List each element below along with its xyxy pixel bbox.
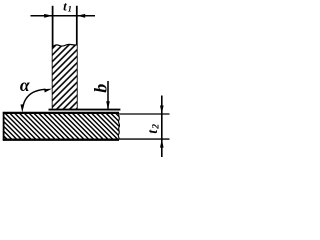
wire horizontal plate bottom edge: [3, 139, 119, 141]
node horizontal plate hatch fill: [4, 113, 120, 140]
wire vertical plate bottom edge / b extension line: [49, 109, 121, 111]
node alpha arc: [23, 89, 46, 108]
wire horizontal plate top edge: [3, 112, 119, 114]
svg-text:1: 1: [68, 3, 72, 13]
node vertical plate hatch fill: [53, 44, 77, 109]
node alpha arrowhead right: [44, 89, 52, 93]
svg-text:2: 2: [152, 124, 162, 130]
wire left extension line / vertical plate left edge: [52, 6, 54, 110]
wire t2 dimension line: [161, 96, 163, 158]
wire t2 top extension line: [120, 113, 170, 115]
wire horizontal plate left edge: [3, 112, 5, 141]
node t2 top arrowhead: [160, 106, 164, 114]
wire t2 bottom extension line: [120, 138, 170, 140]
svg-text:α: α: [20, 75, 30, 95]
svg-text:b: b: [90, 84, 110, 93]
svg-text:t: t: [63, 0, 67, 13]
wire vertical plate wavy break line (top): [53, 44, 77, 47]
wire t1 dimension line: [31, 15, 96, 17]
node b arrow stem: [107, 81, 109, 109]
node b arrowhead: [106, 101, 110, 109]
node t1 right arrowhead: [77, 14, 85, 18]
node t1 left arrowhead: [44, 14, 52, 18]
node alpha arrowhead down: [21, 104, 25, 112]
wire horizontal plate wavy right break edge: [118, 113, 119, 140]
wire right extension line / vertical plate right edge: [76, 6, 78, 110]
node t2 bottom arrowhead: [160, 139, 164, 147]
